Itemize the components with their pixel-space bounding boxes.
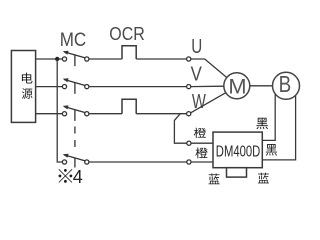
rectifier module DM400D	[213, 132, 262, 168]
note ※4	[59, 169, 73, 183]
label orange 2	[195, 147, 207, 158]
label orange 1	[194, 128, 206, 138]
wire V terminal to motor	[191, 85, 224, 87]
svg-text:U: U	[191, 36, 202, 58]
wire W terminal to motor	[191, 93, 226, 113]
label blue 2	[258, 173, 269, 184]
brake B	[273, 71, 300, 99]
mechanical linkage dashed line	[74, 127, 76, 149]
svg-text:B: B	[279, 71, 292, 97]
wire black 2 from DM400D to brake	[262, 96, 295, 160]
OCR overload element on W phase	[89, 99, 187, 114]
svg-text:MC: MC	[60, 29, 86, 51]
MC contact pole 1	[62, 51, 89, 66]
wire R phase from box to MC pole 1	[36, 58, 63, 60]
wire V phase from pole 2 to terminal	[89, 86, 187, 88]
motor M	[224, 73, 250, 99]
wire U terminal to motor	[191, 59, 227, 78]
svg-text:OCR: OCR	[109, 23, 145, 44]
wire pole 4 to orange terminal	[89, 161, 187, 163]
wire black 1 from DM400D to brake	[262, 94, 275, 140]
terminal orange 2	[187, 160, 191, 164]
DM400D bottom tab	[227, 168, 247, 177]
MC contact pole 4	[62, 154, 89, 168]
svg-text:W: W	[192, 91, 206, 113]
wire T phase from box to MC pole 3	[36, 113, 63, 115]
wire bus tap down to MC pole 4	[57, 59, 62, 162]
label black 2	[266, 144, 277, 156]
terminal U	[187, 57, 191, 61]
terminal V	[187, 85, 191, 89]
junction dot on R phase	[55, 57, 59, 61]
label blue 1	[209, 174, 220, 185]
wire orange 2 into DM400D	[191, 161, 213, 163]
svg-text:4: 4	[73, 167, 83, 187]
wire S phase from box to MC pole 2	[36, 86, 63, 88]
wire orange tap from W phase	[174, 114, 186, 144]
power source box 电源	[11, 51, 35, 123]
MC contact pole 3	[62, 105, 89, 121]
svg-text:M: M	[228, 75, 246, 99]
label black 1	[256, 118, 268, 129]
svg-text:DM400D: DM400D	[216, 143, 260, 160]
svg-text:V: V	[191, 63, 203, 85]
wire orange 1 into DM400D	[191, 142, 213, 144]
terminal W	[187, 112, 191, 116]
wire motor to brake	[250, 85, 273, 87]
OCR overload element on U phase	[89, 46, 187, 59]
terminal orange 1	[187, 141, 191, 145]
MC contact pole 2	[62, 78, 89, 94]
